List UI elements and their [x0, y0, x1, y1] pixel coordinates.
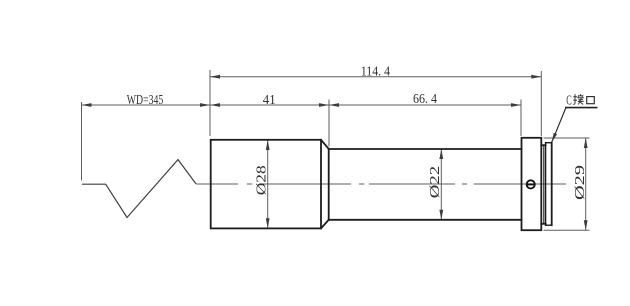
svg-text:Ø22: Ø22 [428, 166, 443, 199]
svg-text:66. 4: 66. 4 [413, 92, 437, 107]
svg-text:114. 4: 114. 4 [361, 65, 390, 80]
svg-text:C: C [566, 93, 572, 108]
svg-text:WD=345: WD=345 [127, 93, 164, 108]
svg-text:Ø28: Ø28 [255, 165, 270, 195]
svg-text:41: 41 [263, 93, 276, 108]
svg-text:Ø29: Ø29 [573, 165, 588, 200]
